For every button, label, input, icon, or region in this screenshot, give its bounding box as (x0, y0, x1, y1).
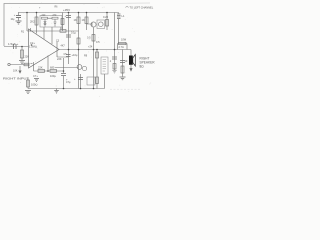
svg-text:4K7: 4K7 (61, 45, 66, 48)
svg-text:C7+: C7+ (33, 74, 38, 78)
svg-text:+35V: +35V (63, 8, 70, 12)
svg-text:22K: 22K (25, 56, 30, 59)
svg-text:0.1µ: 0.1µ (71, 32, 76, 35)
svg-text:10K: 10K (13, 70, 18, 73)
svg-text:RIGHT INPUT: RIGHT INPUT (3, 77, 29, 81)
svg-text:22K: 22K (38, 66, 43, 70)
svg-text:1K: 1K (82, 18, 85, 22)
svg-text:680: 680 (50, 66, 55, 70)
svg-text:TO LEFT CHANNEL: TO LEFT CHANNEL (130, 5, 154, 9)
svg-text:1K: 1K (60, 27, 63, 30)
svg-text:1K: 1K (74, 18, 77, 22)
svg-text:+24: +24 (88, 46, 93, 49)
svg-text:0.22: 0.22 (103, 15, 109, 19)
svg-text:0.5: 0.5 (96, 40, 100, 44)
svg-text:1.5µF +: 1.5µF + (8, 42, 19, 46)
svg-text:8Ω: 8Ω (140, 65, 145, 69)
svg-text:C2+: C2+ (30, 41, 35, 45)
svg-text:10µ: 10µ (11, 19, 16, 21)
svg-text:2K2: 2K2 (30, 20, 35, 24)
svg-text:100Ω: 100Ω (31, 83, 37, 87)
svg-text:22K: 22K (57, 57, 62, 61)
svg-text:100µ: 100µ (50, 74, 56, 78)
svg-text:10W: 10W (121, 39, 127, 42)
svg-text:+10µ: +10µ (72, 53, 78, 57)
svg-text:1.5MΩ: 1.5MΩ (29, 45, 37, 49)
svg-text:2.7Ω: 2.7Ω (119, 46, 124, 49)
svg-text:0.5: 0.5 (87, 37, 91, 40)
